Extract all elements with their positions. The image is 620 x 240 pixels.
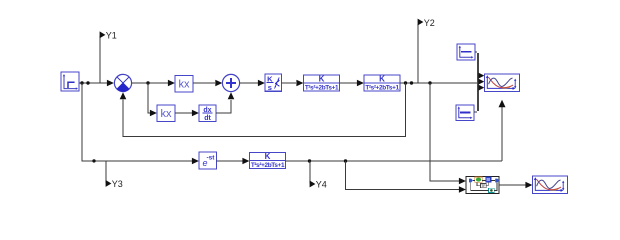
aux source SRC2 <box>457 44 475 60</box>
transfer function TF3 <box>250 152 286 169</box>
wire sum to kx <box>132 82 168 84</box>
arrow clock into scope <box>499 100 506 107</box>
wire TF2 to mux <box>400 82 477 84</box>
arrow into TF2 <box>357 80 364 87</box>
node split B <box>86 81 89 84</box>
mux bar <box>477 53 479 111</box>
wire TF1 to TF2 <box>340 82 358 84</box>
arrow into sum <box>107 80 114 87</box>
aux source SRC3 <box>456 105 474 121</box>
wire kx to plus <box>193 82 215 84</box>
label Y4 <box>310 181 316 188</box>
derivative block DXDT <box>199 105 216 122</box>
svg-text:dt: dt <box>204 115 211 122</box>
label Y1 <box>100 31 106 38</box>
arrow into plus <box>215 80 222 87</box>
wire bottom branch <box>93 160 192 162</box>
scope SCOPE1 <box>485 74 520 91</box>
node split H <box>308 159 311 162</box>
svg-text:K: K <box>265 152 271 161</box>
arrow into TF3 <box>242 158 249 165</box>
arrow into K/s <box>258 80 265 87</box>
arrow into subsystem input 1 <box>459 178 466 185</box>
arrow into TF1 <box>296 80 303 87</box>
svg-text:kx: kx <box>179 79 191 91</box>
arrow into scope2 <box>525 182 532 189</box>
wire plus to K/s <box>240 82 258 84</box>
svg-text:T²s²+2bTs+1: T²s²+2bTs+1 <box>251 162 285 169</box>
node split C <box>146 81 149 84</box>
svg-text:Y4: Y4 <box>316 180 327 190</box>
wire feedback loop <box>123 83 406 136</box>
svg-text:T²s²+2bTs+1: T²s²+2bTs+1 <box>365 84 399 91</box>
arrow into kx <box>168 80 175 87</box>
wire subsystem to scope2 <box>499 184 526 186</box>
svg-text:Y1: Y1 <box>106 30 117 40</box>
wire drop to bottom branch <box>82 83 93 161</box>
wire TF3 to clock riser <box>286 160 503 162</box>
label Y3 <box>106 180 112 187</box>
svg-text:Y3: Y3 <box>112 179 123 189</box>
svg-text:kx: kx <box>161 108 173 120</box>
transfer function TF1 <box>304 75 340 92</box>
node split D <box>404 81 407 84</box>
svg-text:K: K <box>379 75 385 84</box>
wire drop to subsystem input 2 <box>346 161 460 190</box>
svg-text:K: K <box>319 75 325 84</box>
wire Y1 riser <box>99 36 101 83</box>
arrow mux to scope in 2 <box>478 79 484 85</box>
wire SRC2 to mux <box>475 51 477 53</box>
gain block KX2 <box>157 105 175 122</box>
arrow into delay <box>192 158 199 165</box>
svg-text:Y2: Y2 <box>424 18 435 28</box>
svg-text:-st: -st <box>207 155 216 162</box>
svg-text:T²s²+2bTs+1: T²s²+2bTs+1 <box>305 84 339 91</box>
arrow derivative into plus bottom <box>228 92 235 99</box>
wire dxdt up to plus <box>216 100 231 113</box>
integrator block KS <box>265 74 282 92</box>
summation junction SUM1 <box>114 74 131 91</box>
transfer function TF2 <box>364 75 400 92</box>
arrow into lower kx <box>150 110 157 117</box>
step source SRC1 <box>61 72 79 91</box>
node split A <box>80 81 83 84</box>
scope SCOPE2 <box>533 176 568 193</box>
wire Y2 riser <box>417 24 419 83</box>
arrow into dxdt <box>192 110 199 117</box>
adder PLUS1 <box>222 74 239 91</box>
wire kx2 to dxdt <box>175 112 192 114</box>
delay block DELAY e^-st <box>199 152 217 169</box>
wire Y4 drop <box>309 161 311 184</box>
node split I <box>344 159 347 162</box>
svg-text:s: s <box>268 83 272 92</box>
arrow mux to scope in 3 <box>478 85 484 91</box>
arrow mux to scope in 1 <box>478 73 484 79</box>
arrow feedback into sum bottom <box>120 92 127 99</box>
node split E <box>410 81 413 84</box>
subsystem block SUBSYS <box>466 177 499 194</box>
wire Y3 drop <box>105 161 107 183</box>
label Y2 <box>418 19 424 26</box>
svg-text:TF: TF <box>481 184 485 188</box>
node split G <box>92 159 95 162</box>
wire K/s to TF1 <box>282 82 297 84</box>
wire source to sum <box>79 82 107 84</box>
node split F <box>428 81 431 84</box>
wire clock riser to scope <box>501 107 503 161</box>
wire SRC3 to mux <box>474 111 477 113</box>
wire branch to lower kx <box>148 83 150 113</box>
wire drop to subsystem input 1 <box>430 83 459 181</box>
wire delay to TF3 <box>217 160 244 162</box>
gain block KX1 <box>175 76 193 93</box>
arrow into subsystem input 2 <box>459 186 466 193</box>
